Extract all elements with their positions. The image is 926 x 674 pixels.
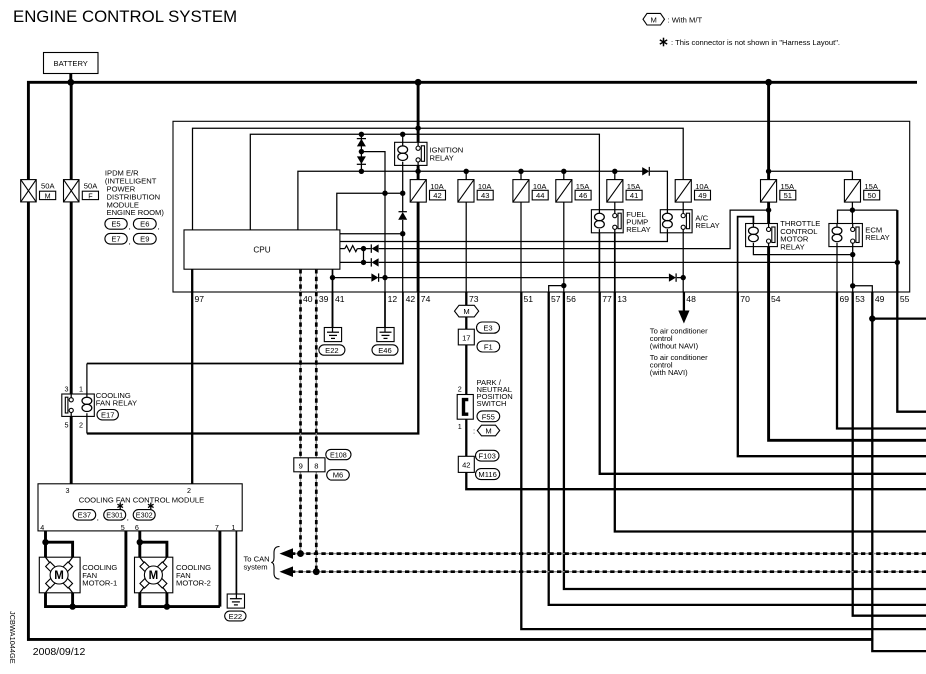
wire CAN-L dashed horizontal: [291, 571, 926, 573]
svg-text:5: 5: [121, 523, 125, 532]
label To CAN system with brace: [244, 547, 280, 580]
svg-text:42: 42: [462, 461, 470, 470]
svg-text:10A: 10A: [478, 182, 492, 191]
svg-text:M116: M116: [478, 470, 496, 479]
ECM relay K5: [829, 224, 890, 247]
wire A/C contact to terminal 48: [682, 233, 684, 292]
wire fuse41 to fuel pump contact: [614, 202, 616, 210]
node fuse bus fuse44: [518, 169, 523, 174]
wire CAN-H dashed vertical terminal 40: [300, 269, 302, 553]
wire bus4 y193 from CPU pin to ignition coil line: [337, 193, 403, 230]
svg-text:9: 9: [299, 462, 303, 471]
svg-text:system: system: [244, 562, 268, 571]
connector box 42: [458, 456, 474, 472]
fuse 44 10A: [513, 180, 548, 203]
diode D4 left on y262: [371, 258, 379, 266]
svg-text:,: ,: [127, 513, 129, 522]
wire ECM coil bottom to terminal 69: [836, 247, 838, 292]
svg-text:: With M/T: : With M/T: [668, 15, 703, 24]
svg-text:SWITCH: SWITCH: [477, 399, 507, 408]
svg-text:50A: 50A: [84, 182, 98, 191]
node bus2 ignition coil: [400, 132, 405, 137]
node jog 56/57: [561, 283, 566, 288]
ground E46: [377, 328, 394, 342]
wire fuse46 to terminal 56: [563, 202, 565, 292]
wire terminal 51 external: [521, 292, 926, 629]
connector E6: [133, 219, 159, 232]
svg-text:,: ,: [97, 513, 99, 522]
svg-text:56: 56: [566, 294, 576, 304]
svg-text:M: M: [54, 570, 64, 582]
svg-text:13: 13: [617, 294, 627, 304]
legend star note: [660, 38, 840, 47]
wire fuel pump coil bottom to terminal 77: [598, 233, 600, 292]
node bus4 x402: [400, 191, 405, 196]
wire CPU pin 97 vertical to module: [191, 269, 193, 484]
wire bus1 y128 from CPU pin to fuse 49: [193, 128, 684, 230]
svg-text:FAN RELAY: FAN RELAY: [96, 399, 137, 408]
svg-text:2: 2: [187, 486, 191, 495]
svg-text:2: 2: [458, 385, 462, 394]
svg-text:43: 43: [481, 191, 489, 200]
connector F1: [477, 341, 500, 352]
wire ignition relay coil line x402: [402, 134, 404, 292]
svg-text:42: 42: [406, 294, 416, 304]
svg-text:,: ,: [129, 237, 131, 246]
svg-text:70: 70: [740, 294, 750, 304]
svg-text:,: ,: [158, 222, 160, 231]
svg-text:E302: E302: [136, 511, 153, 520]
svg-text:E108: E108: [330, 450, 347, 459]
svg-text:41: 41: [630, 191, 638, 200]
A/C relay K3: [660, 210, 719, 233]
svg-text:E6: E6: [140, 220, 149, 229]
wire coil pin2 stub: [86, 416, 88, 433]
svg-text:7: 7: [215, 523, 219, 532]
wire terminal 70 external: [738, 292, 926, 456]
wire terminal 73 external: [466, 292, 926, 489]
connector M116: [476, 469, 500, 480]
connector E3: [477, 322, 500, 333]
node fuse bus fuse46: [561, 169, 566, 174]
svg-text:3: 3: [66, 486, 70, 495]
CPU box U1: [184, 230, 340, 269]
svg-text:12: 12: [388, 294, 398, 304]
svg-text:E7: E7: [111, 235, 120, 244]
wire terminal 56 external: [564, 292, 926, 589]
hexagon M with colon: [473, 425, 500, 436]
svg-text:53: 53: [855, 294, 865, 304]
node bus junction x418: [415, 79, 422, 86]
wire module pin1 to ground: [235, 531, 237, 595]
diode D8 right on y277: [669, 273, 677, 281]
svg-text:M: M: [45, 191, 51, 200]
ground E22 module: [227, 594, 244, 608]
connector E37: [73, 510, 99, 522]
node y262 x897: [895, 260, 900, 265]
svg-text:1: 1: [458, 422, 462, 431]
connector E301 with star: [104, 503, 129, 522]
connector E22: [319, 345, 345, 355]
wire terminal 12 to ground: [384, 292, 386, 328]
svg-text:E17: E17: [101, 411, 115, 420]
wire CPU to ign coil y233: [340, 233, 403, 235]
wire terminal 77 external: [600, 292, 926, 474]
svg-text:46: 46: [579, 191, 587, 200]
svg-text:54: 54: [771, 294, 781, 304]
label IPDM E/R block: [105, 169, 164, 218]
node fuse51 bottom junction: [766, 207, 771, 212]
wire diode chain vertical x361: [360, 134, 362, 171]
node y277 x683: [681, 275, 686, 280]
wire fuel pump contact to terminal 13: [614, 233, 616, 292]
svg-text:RELAY: RELAY: [430, 153, 454, 162]
throttle control motor relay K4: [746, 219, 821, 251]
wire terminal 74 to cooling fan relay coil: [87, 292, 418, 434]
resistor R1: [340, 246, 357, 252]
svg-text:F1: F1: [484, 343, 493, 352]
node fuse bus fuse43: [464, 169, 469, 174]
svg-text:ENGINE CONTROL SYSTEM: ENGINE CONTROL SYSTEM: [13, 7, 237, 26]
svg-text:M: M: [651, 15, 657, 24]
node fuse bus fuse41: [612, 169, 617, 174]
svg-text:50: 50: [867, 191, 875, 200]
wire 41-12-48 line y277: [333, 277, 684, 279]
arrow CAN-L: [280, 566, 294, 577]
connector M6: [327, 470, 350, 480]
svg-text:RELAY: RELAY: [865, 233, 889, 242]
svg-text:E22: E22: [325, 346, 339, 355]
wire terminal 41 to ground: [332, 292, 334, 328]
node fuse50 bottom: [850, 207, 855, 212]
svg-text:2: 2: [79, 420, 83, 429]
svg-text:E9: E9: [140, 235, 149, 244]
cooling fan relay E17: [62, 384, 137, 429]
svg-text:M6: M6: [333, 471, 344, 480]
diode D6 up on x402: [398, 212, 407, 221]
wire right feed x768 down to exit y440: [769, 82, 926, 440]
svg-text:51: 51: [784, 191, 792, 200]
wire terminal 53 external: [853, 292, 926, 616]
node ECM contact y254: [850, 252, 855, 257]
wire terminal 49 external: [872, 292, 926, 651]
label to air conditioner control without NAVI: [650, 327, 708, 351]
svg-text:3: 3: [65, 384, 69, 393]
wire fuse top stubs 43 44 46 41: [466, 171, 615, 179]
node motor1 branch: [42, 539, 48, 545]
fuel pump relay K2: [591, 210, 650, 235]
svg-text:CPU: CPU: [253, 245, 270, 254]
svg-text:(with NAVI): (with NAVI): [650, 368, 688, 377]
wire module pin5: [124, 531, 127, 607]
node battery junction: [67, 79, 74, 86]
svg-text:E301: E301: [106, 511, 123, 520]
wire terminal 69 external: [837, 292, 926, 429]
node y277 x332: [330, 275, 335, 280]
svg-text:M: M: [463, 307, 469, 316]
wire y151 to x385 vertical: [361, 152, 385, 292]
svg-text:1: 1: [79, 384, 83, 393]
fuse 42 10A: [410, 180, 445, 203]
svg-text:10A: 10A: [533, 182, 547, 191]
diode D3 left on y248: [371, 244, 379, 252]
cooling fan control module box: [38, 484, 242, 532]
hexagon M on terminal 73: [455, 305, 479, 317]
svg-text:48: 48: [686, 294, 696, 304]
svg-text:15A: 15A: [627, 182, 641, 191]
svg-text:50A: 50A: [41, 182, 55, 191]
wire fuse51-fuse50 link y171: [769, 170, 853, 172]
svg-text:F55: F55: [482, 412, 495, 421]
node bus junction x768: [765, 79, 772, 86]
diode D7 right on y277: [371, 273, 379, 281]
node x768 y171: [766, 169, 771, 174]
wire terminal 42 to cooling fan relay coil: [87, 292, 403, 364]
fuse 50 15A: [844, 180, 879, 203]
svg-text:E37: E37: [78, 511, 92, 520]
node y262 x363: [361, 260, 366, 265]
fuse 46 15A: [556, 180, 591, 203]
wire terminal 55 vertical x897 to exit y411: [897, 210, 926, 412]
svg-text:RELAY: RELAY: [695, 221, 719, 230]
wire bottom bus: [27, 638, 873, 641]
wire motor1 positive: [46, 531, 126, 607]
cooling fan motor-2: [135, 557, 212, 593]
wire main battery bus: [27, 81, 917, 84]
wire terminal 49 branch y318: [872, 317, 926, 319]
svg-text:10A: 10A: [695, 182, 709, 191]
node y277 x385: [382, 275, 387, 280]
node motor1 bottom: [69, 603, 75, 609]
legend hexagon M: With M/T: [643, 13, 702, 25]
wire ignition contact / fuse42 feed x418: [417, 82, 420, 292]
label park/neutral position switch: [477, 378, 513, 408]
connector box 17: [458, 329, 474, 345]
svg-text:17: 17: [462, 333, 470, 342]
connector E302 with star: [133, 503, 155, 520]
svg-text::: :: [473, 426, 475, 435]
svg-text:M: M: [149, 570, 159, 582]
wire motor1 branch: [46, 542, 73, 606]
arrow CAN-H: [280, 548, 294, 559]
node fuse bus diode chain: [359, 169, 364, 174]
wire x363 junction vertical: [363, 249, 365, 263]
wire motor2 branch: [140, 542, 167, 606]
svg-text:97: 97: [195, 294, 205, 304]
ignition relay K1: [395, 142, 464, 165]
svg-text:15A: 15A: [864, 182, 878, 191]
svg-text:E46: E46: [378, 346, 392, 355]
svg-text:JCBWA1044GE: JCBWA1044GE: [8, 611, 17, 664]
svg-text:41: 41: [335, 294, 345, 304]
svg-text:74: 74: [421, 294, 431, 304]
node bus1 x418: [415, 126, 420, 131]
svg-text:40: 40: [303, 294, 313, 304]
fuse 51 15A: [761, 180, 796, 203]
connector E46: [372, 345, 398, 355]
svg-text:F: F: [88, 191, 93, 200]
svg-text:15A: 15A: [576, 182, 590, 191]
wire throttle coil bottom to ECM contact: [753, 247, 852, 255]
battery B1: [44, 53, 99, 74]
node fuse bus fuse42: [415, 169, 420, 174]
node y248 x363: [361, 246, 366, 251]
fuse 41 15A: [607, 180, 642, 203]
wire coil pin1 stub: [86, 364, 88, 395]
svg-text:73: 73: [469, 294, 479, 304]
wire fuse49 to A/C contact: [682, 202, 684, 210]
connector E5: [105, 219, 131, 232]
wire bus2 y134 from CPU pin to fuel pump relay coil: [250, 134, 599, 230]
wire terminal 13 external: [615, 292, 926, 532]
ground E22: [324, 328, 341, 342]
arrow to air conditioner control: [678, 311, 689, 324]
fuse 43 10A: [458, 180, 493, 203]
node CAN-H junction: [297, 550, 304, 557]
svg-text:51: 51: [524, 294, 534, 304]
park/neutral position switch S1: [457, 385, 473, 431]
svg-text:: This connector is not shown: : This connector is not shown in "Harnes…: [671, 38, 840, 47]
wire terminal 57 jog: [549, 286, 564, 292]
connector F55: [477, 411, 500, 422]
svg-text:1: 1: [231, 523, 235, 532]
svg-text:F103: F103: [479, 452, 496, 461]
wire fuse-F feed vertical x71: [70, 81, 73, 399]
svg-text:77: 77: [602, 294, 612, 304]
fusible link M 50A: [21, 180, 56, 202]
svg-text:15A: 15A: [781, 182, 795, 191]
connector E9: [133, 233, 156, 244]
wire fuse50 bottom junction links: [838, 202, 898, 223]
svg-text:E22: E22: [229, 612, 243, 621]
wire fuse44 to terminal 51: [520, 202, 522, 292]
svg-text:8: 8: [314, 462, 318, 471]
wire CPU to fuse51 branch y248: [357, 210, 768, 249]
node motor2 bottom: [164, 603, 170, 609]
wire left feed vertical x28: [27, 81, 30, 641]
wire CPU to fuse50 branch y262: [340, 261, 897, 263]
svg-text:ENGINE ROOM): ENGINE ROOM): [107, 208, 165, 217]
wire terminal 57 external: [549, 292, 926, 605]
svg-text:69: 69: [840, 294, 850, 304]
svg-text:MOTOR-2: MOTOR-2: [176, 579, 211, 588]
wire module pin7: [218, 531, 221, 607]
svg-text:57: 57: [551, 294, 561, 304]
labels IPDM terminal numbers: [195, 294, 910, 304]
svg-text:(without NAVI): (without NAVI): [650, 342, 699, 351]
wire motor2 positive: [140, 531, 220, 607]
cooling fan motor-1: [39, 557, 117, 593]
wire CPU to A/C coil y241: [340, 233, 668, 242]
connector box 9/8: [294, 458, 325, 472]
svg-text:49: 49: [875, 294, 885, 304]
connector E22 module: [225, 611, 246, 621]
node motor2 branch: [137, 539, 143, 545]
svg-text:4: 4: [40, 523, 44, 532]
connector E108: [326, 449, 351, 459]
wire relay pin5 to module pin3: [70, 412, 73, 484]
svg-text:6: 6: [135, 523, 139, 532]
svg-text:5: 5: [65, 420, 69, 429]
wire battery stub: [69, 74, 72, 83]
diode D5 on fuse bus: [642, 167, 650, 176]
connector F103: [476, 450, 500, 461]
svg-text:E3: E3: [483, 324, 492, 333]
wire fuse bus y171 from CPU pin to A/C relay coil: [298, 171, 668, 230]
svg-text:BATTERY: BATTERY: [54, 59, 88, 68]
svg-text:RELAY: RELAY: [780, 242, 804, 251]
node ECM contact y285: [850, 283, 855, 288]
node CPU line x402: [400, 231, 405, 236]
svg-text:49: 49: [698, 191, 706, 200]
node bus4 x385: [382, 191, 387, 196]
svg-text:,: ,: [129, 222, 131, 231]
wire CPU pin 41 vertical: [332, 269, 334, 327]
IPDM E/R outer box: [173, 121, 910, 292]
fusible link F 50A: [64, 180, 99, 202]
svg-text:10A: 10A: [430, 182, 444, 191]
wire ECM contact to terminals 53/49: [853, 247, 873, 292]
fuse 49 10A: [675, 180, 710, 203]
node terminal 49 y318: [869, 315, 875, 321]
diode D2 down: [357, 156, 366, 164]
node bus2 diode branch: [359, 132, 364, 137]
wire CAN-L dashed vertical terminal 39: [315, 269, 317, 572]
svg-text:RELAY: RELAY: [626, 225, 650, 234]
label to air conditioner control with NAVI: [650, 353, 708, 377]
wire fuse43 to terminal 73: [465, 202, 467, 292]
svg-text:E5: E5: [111, 220, 120, 229]
svg-text:COOLING FAN CONTROL MODULE: COOLING FAN CONTROL MODULE: [79, 496, 204, 505]
svg-text:42: 42: [433, 191, 441, 200]
node CAN-L junction: [313, 568, 320, 575]
svg-text:M: M: [485, 426, 491, 435]
svg-text:2008/09/12: 2008/09/12: [33, 646, 86, 658]
svg-text:MOTOR-1: MOTOR-1: [82, 579, 117, 588]
svg-text:44: 44: [536, 191, 544, 200]
svg-text:55: 55: [900, 294, 910, 304]
connector E7: [105, 233, 131, 246]
wire throttle coil top to terminal 70: [738, 217, 754, 292]
svg-text:39: 39: [319, 294, 329, 304]
diode D1 up: [357, 139, 366, 147]
wire fuse50 top stub: [851, 171, 853, 179]
wire terminal 48 arrow stem: [683, 292, 685, 313]
node diode mid junction: [359, 149, 364, 154]
wire CAN-H dashed horizontal: [291, 553, 926, 555]
